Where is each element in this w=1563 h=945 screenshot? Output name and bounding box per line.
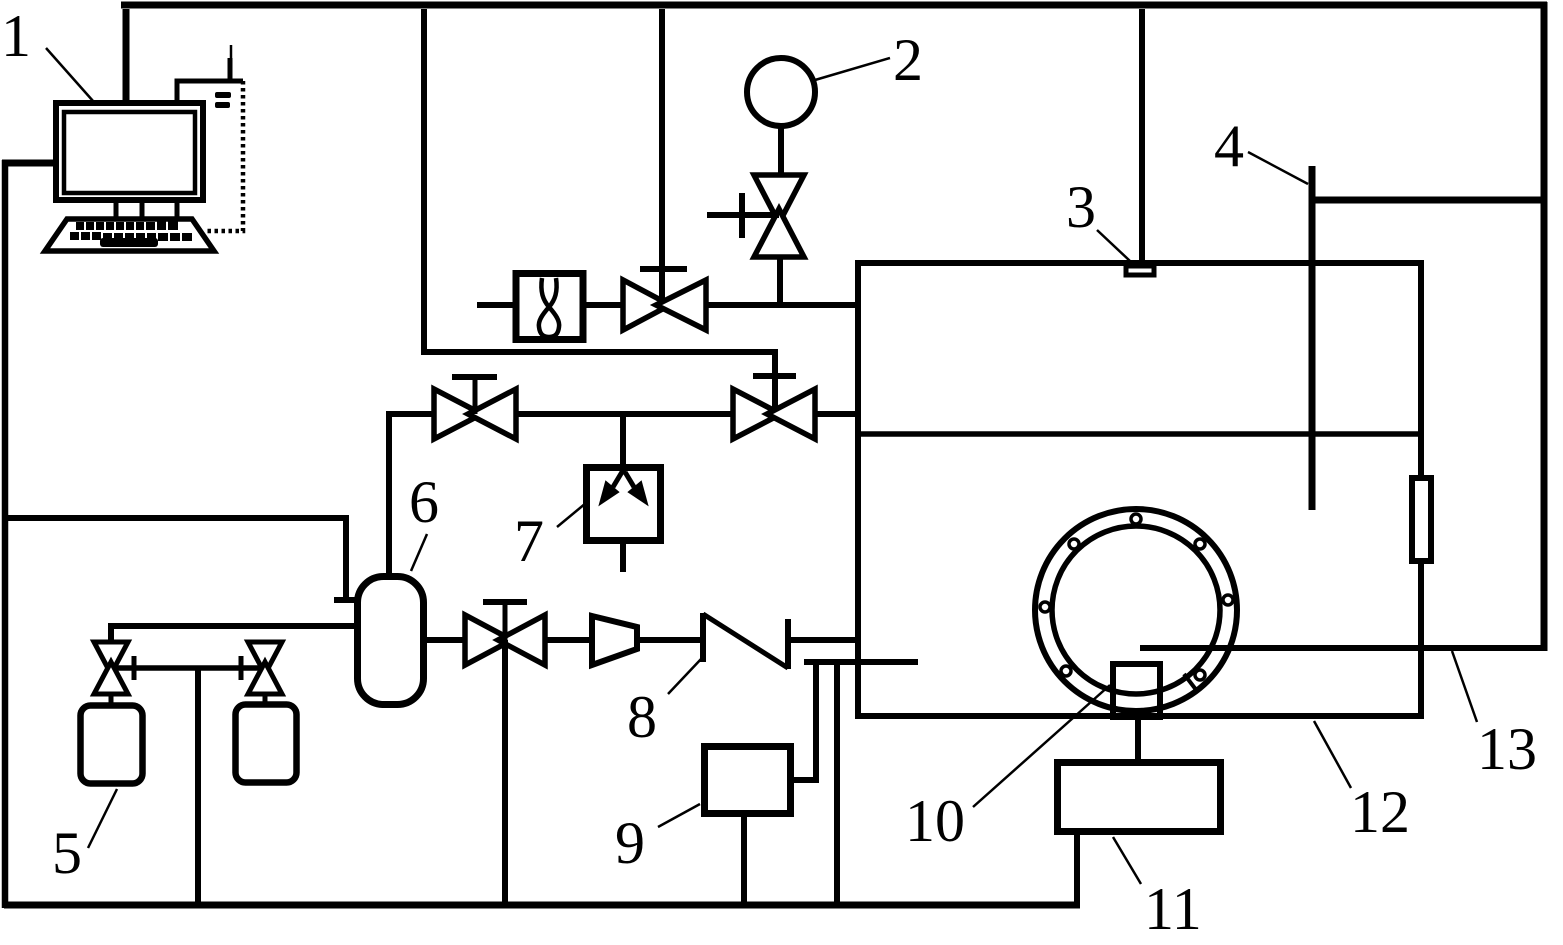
wire bottle cross line xyxy=(111,656,265,680)
wire bottle header xyxy=(111,626,354,642)
leader 9 xyxy=(658,804,700,827)
tank 6 xyxy=(358,577,424,705)
wire left border xyxy=(2,160,9,908)
wire drop from valve V8 xyxy=(502,640,508,905)
svg-text:13: 13 xyxy=(1477,716,1537,782)
leader 6 xyxy=(411,534,427,571)
leader 12 xyxy=(1314,721,1351,788)
leader 5 xyxy=(88,789,117,848)
wire computer link xyxy=(2,9,126,163)
wire vertical to valve row xyxy=(424,9,775,414)
svg-text:8: 8 xyxy=(627,684,657,750)
gauge port on chamber wall xyxy=(1412,478,1431,561)
valve V6 (bottle 1) xyxy=(94,642,128,703)
svg-text:4: 4 xyxy=(1214,113,1244,179)
wire box 9 stem xyxy=(741,817,747,905)
svg-text:12: 12 xyxy=(1350,779,1410,845)
svg-text:3: 3 xyxy=(1066,174,1096,240)
leader 2 xyxy=(815,58,890,80)
valve V2 (gauge isolation) xyxy=(707,175,804,257)
valve V5 xyxy=(733,376,815,439)
svg-text:5: 5 xyxy=(52,820,82,886)
svg-text:11: 11 xyxy=(1144,876,1202,942)
wire center vertical xyxy=(659,9,665,305)
valve V3 (main inlet) xyxy=(623,269,706,330)
svg-text:1: 1 xyxy=(1,3,31,69)
gauge 2 xyxy=(747,58,815,126)
wire tank outlet xyxy=(427,637,465,643)
computer U1 monitor xyxy=(56,103,203,220)
wire to box 9 xyxy=(794,662,816,780)
wire electrode to border xyxy=(1312,197,1544,204)
valve V7 (bottle 2) xyxy=(248,642,282,702)
wire gauge valve to main xyxy=(777,257,783,305)
wire gauge stem xyxy=(778,125,784,175)
wire sample line into chamber xyxy=(804,659,918,665)
computer U1 keyboard xyxy=(45,219,214,251)
svg-text:9: 9 xyxy=(615,810,645,876)
valve V4 xyxy=(434,377,516,439)
check valve 8 xyxy=(703,613,788,669)
leader 8 xyxy=(668,658,702,694)
wire filter to valve xyxy=(586,302,623,308)
port 3 xyxy=(1126,266,1154,275)
chamber 12 xyxy=(858,263,1421,716)
wire bottom border xyxy=(4,902,1080,909)
wire check valve to chamber xyxy=(788,637,858,643)
wire vertical to port 3 xyxy=(1139,9,1145,262)
leader 4 xyxy=(1248,152,1308,184)
drive unit 11 xyxy=(1058,763,1221,832)
leader 1 xyxy=(46,48,93,101)
computer U1 tower xyxy=(177,45,243,231)
wire drop from bottles xyxy=(195,668,201,905)
nozzle N1 xyxy=(592,616,637,665)
leader 10 xyxy=(973,685,1110,807)
filter F1 xyxy=(516,274,583,340)
svg-text:7: 7 xyxy=(514,508,544,574)
gas bottle 5b xyxy=(236,705,297,783)
flange viewport xyxy=(1035,509,1237,711)
leader 3 xyxy=(1097,230,1130,261)
wire chamber divider xyxy=(858,431,1421,437)
wire drive drop xyxy=(1074,835,1080,905)
wire top border xyxy=(121,2,1547,9)
svg-text:6: 6 xyxy=(409,469,439,535)
wire drop to manifold xyxy=(834,662,840,905)
wire tee to flow element 7 xyxy=(620,414,626,466)
sample stage 10 xyxy=(1113,664,1160,717)
wire valve to nozzle xyxy=(545,637,592,643)
svg-text:2: 2 xyxy=(893,27,923,93)
wire line 13 xyxy=(1140,645,1544,651)
leader 7 xyxy=(557,503,586,527)
flow divider 7 xyxy=(587,466,661,572)
wire row y414 xyxy=(389,414,858,573)
wire right border xyxy=(1541,2,1548,651)
leader 13 xyxy=(1452,651,1477,722)
wire valve to chamber y305 xyxy=(706,302,858,308)
wire stub left of filter xyxy=(477,302,513,308)
valve V8 (tank outlet) xyxy=(465,602,545,665)
leader 11 xyxy=(1113,837,1141,884)
electrode 4 xyxy=(1309,166,1316,510)
gas bottle 5a xyxy=(81,706,143,784)
wire stage stem xyxy=(1135,717,1141,759)
svg-text:10: 10 xyxy=(905,788,965,854)
wire left supply line xyxy=(2,518,374,600)
wire nozzle to check valve xyxy=(637,637,701,643)
controller 9 xyxy=(705,747,791,814)
